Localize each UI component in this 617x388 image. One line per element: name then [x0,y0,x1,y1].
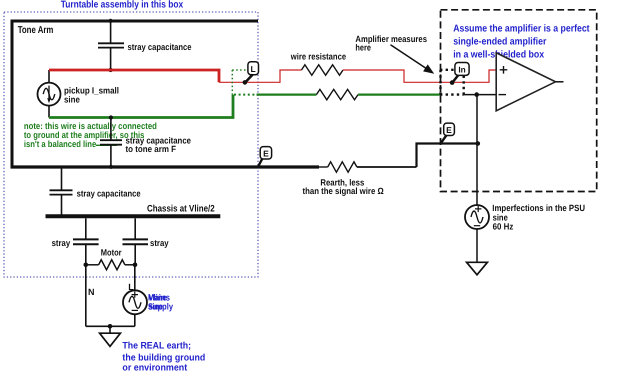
wire red signal thin middle [219,70,302,82]
node E callout box (left) [260,147,271,159]
node L callout box [248,62,259,75]
PSU source plus [475,206,481,212]
capacitor stray right plates [123,239,149,244]
pickup source I1 bottom lead [48,106,50,118]
svg-text:The REAL earth;: The REAL earth; [122,341,191,352]
wire green dotted segment at box edge [234,94,257,96]
node E callout box (right) [444,123,455,135]
svg-text:stray capacitance: stray capacitance [128,42,192,52]
PSU imperfection source circle [465,205,489,229]
junction dot at top shield [109,19,113,23]
svg-text:E: E [446,125,452,135]
svg-text:Chassis at Vline/2: Chassis at Vline/2 [147,203,215,214]
capacitor C stray (top) lead upper [110,21,112,43]
node In callout line [453,76,458,83]
svg-text:single-ended amplifier: single-ended amplifier [453,37,546,48]
junction dot earth [108,324,113,329]
mains supply bottom lead [134,314,136,326]
svg-text:isn't a balanced line: isn't a balanced line [24,139,96,149]
left stray cap upper lead [85,218,87,239]
wire green return thick from pickup [49,95,233,118]
arrow amplifier measures here [391,45,427,69]
capacitor C stray (top) lead lower [110,48,112,70]
wire E after Rearth [357,166,417,168]
wire E step up into amp area [417,144,478,168]
label: Rearth, less than the signal wire ohms [303,177,384,196]
wire E ground thick (tone arm bottom edge) [11,165,320,168]
svg-text:E: E [263,149,269,159]
op-amp plus input symbol [500,66,508,74]
svg-text:sine: sine [148,302,163,312]
label: stray capacitance to tone arm F [126,135,192,154]
wire E lead to Rearth [319,166,328,168]
wire red signal thick from pickup [49,70,219,82]
chassis bar [46,214,221,218]
svg-text:wire resistance: wire resistance [290,52,346,62]
note green callout line [96,144,117,146]
svg-text:stray capacitance: stray capacitance [77,189,141,199]
svg-text:stray: stray [52,238,71,248]
mains supply minus [132,309,138,311]
left stray cap lower lead [85,244,87,265]
motor resistor left lead [86,264,99,266]
pickup source I1 sine [43,88,55,100]
label: Imperfections in the PSU sine 60 Hz [492,203,585,231]
svg-text:stray: stray [150,238,169,248]
ground symbol real earth stem [109,326,111,333]
resistor motor zigzag [99,260,125,270]
PSU source sine [471,211,483,223]
svg-text:sine: sine [64,94,80,104]
wire N down [85,265,87,327]
motor resistor right lead [125,264,135,266]
junction dot E wire to PSU riser [476,141,481,146]
wire green return to amplifier box [358,93,440,95]
node L callout line [246,75,253,82]
svg-text:Imperfections in the PSU: Imperfections in the PSU [492,203,585,213]
capacitor to tone arm F lower lead [110,145,112,167]
capacitor chassis stray lower lead [61,195,63,215]
black dotted shield vertical [463,76,465,95]
svg-text:Tone Arm: Tone Arm [18,25,54,36]
tone arm shield box left edge (wire) [11,20,14,169]
ground symbol real earth triangle [100,333,121,346]
green dotted shield link vertical at L [231,70,233,95]
junction dot on green wire [109,115,113,119]
node In junction dot [450,80,455,85]
svg-text:here: here [355,42,371,52]
op-amp output stub [556,81,564,83]
svg-text:than the signal wire Ω: than the signal wire Ω [303,186,384,196]
op-amp U1 triangle [496,53,555,111]
svg-text:60 Hz: 60 Hz [493,221,514,231]
svg-text:N: N [88,287,95,297]
label: pickup I_small sine [64,86,119,105]
wire green return solid to resistor [257,93,317,95]
capacitor chassis stray plates [50,190,73,194]
wire L down to mains [134,265,136,291]
svg-text:or environment: or environment [122,363,188,374]
junction dot minus input [474,92,479,97]
pickup source I1 top lead [48,70,50,83]
black dotted shield bottom [440,93,464,95]
capacitor stray left plates [73,239,99,244]
node E callout line (left) [258,159,262,167]
green dotted shield link horizontal at L [232,69,246,71]
label: Assume the amplifier is a perfect single-ended amplifier in a well-shielded box [453,24,590,61]
capacitor C stray (top) plates [98,43,124,47]
note text green [24,121,157,149]
svg-text:In: In [458,64,465,74]
capacitor to tone arm F plates [100,140,122,145]
resistor (green net wire resistance) zigzag [316,89,358,99]
wire riser to PSU [476,95,478,205]
PSU ground stem [476,229,478,263]
junction dot on red wire [109,68,113,72]
black dotted shield entry top [440,69,455,71]
svg-text:to tone arm F: to tone arm F [126,144,177,154]
label: Mains Supply / Vline sine overlapped [148,293,173,312]
tone arm shield box top edge (wire) [11,20,259,23]
resistor wire resistance (red net) zigzag [302,65,344,75]
op-amp minus input symbol [499,94,507,96]
right stray cap lower lead [134,244,136,265]
black dotted shield vertical at box edge [439,70,441,95]
svg-text:Assume the amplifier is a perf: Assume the amplifier is a perfect [453,24,590,35]
label: The REAL earth; the building ground or environment [122,341,205,374]
label: Amplifier measures here [355,34,427,53]
pickup source I1 circle [38,83,61,106]
resistor Rearth zigzag [328,162,357,172]
mains supply source circle [123,290,147,314]
svg-text:Motor: Motor [101,247,122,257]
pickup source I1 current arrow [48,86,50,99]
svg-text:Turntable assembly in this box: Turntable assembly in this box [61,0,184,11]
turntable assembly dotted enclosure box [4,12,258,277]
node In callout box [455,63,469,76]
junction dot at shield bottom [109,165,113,169]
svg-text:L: L [250,64,255,74]
capacitor to tone arm F upper lead [110,118,112,141]
wire bottom earth bus [86,325,135,327]
wire red signal into amplifier [343,70,496,82]
PSU source minus [474,225,480,227]
amplifier shielded dashed box [441,10,597,192]
chassis stub wire from shield [61,167,63,190]
ground symbol PSU triangle [467,262,488,275]
right stray cap upper lead [134,218,136,239]
wire to op-amp minus input [464,94,497,96]
mains supply sine [129,296,141,308]
node E callout line (right) [441,135,446,142]
mains supply plus [132,291,138,297]
node L junction dot [243,80,248,85]
junction dot motor right [133,263,138,268]
junction dot motor left [84,263,89,268]
